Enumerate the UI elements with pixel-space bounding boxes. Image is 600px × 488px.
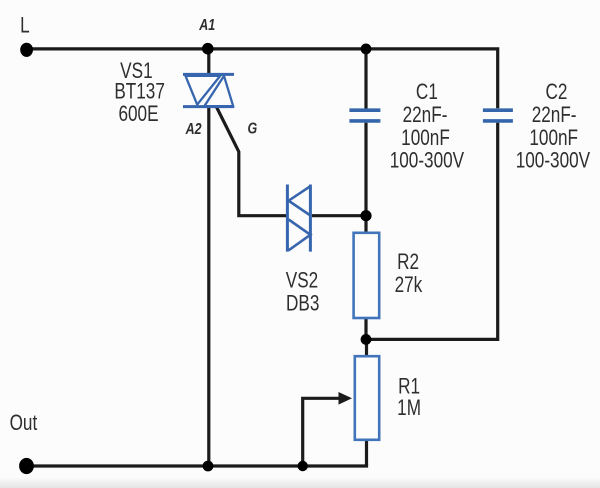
svg-text:100nF: 100nF [529,126,578,151]
wire R2 top lead [364,216,367,234]
terminal Out [19,458,34,474]
wire bottom rail Out to R1 [26,464,368,467]
node A1 junction [202,43,214,55]
wire R2 bottom lead [364,317,367,339]
svg-text:27k: 27k [395,273,423,298]
wire gate from triac to diac [217,107,287,216]
wire R1 top lead [365,339,368,357]
svg-text:L: L [20,14,30,39]
wire diac to node [312,214,366,217]
svg-text:100-300V: 100-300V [390,148,465,173]
capacitor C1 [349,110,380,121]
bottom edge shading [0,477,600,488]
wire A2 vertical upper [207,49,210,76]
svg-text:600E: 600E [118,102,158,127]
terminal L [20,43,33,57]
triac VS1 [183,74,234,106]
svg-text:A1: A1 [198,17,215,35]
node gate-C1-R2 junction [360,210,371,221]
svg-text:Out: Out [10,411,38,436]
wire C1 top lead [364,49,367,109]
svg-text:DB3: DB3 [286,291,319,316]
node A2 bottom junction [203,461,214,472]
svg-text:A2: A2 [185,121,202,139]
svg-text:C1: C1 [416,80,438,105]
wire top rail L to C2 drop [26,49,498,108]
svg-text:100nF: 100nF [401,126,450,151]
wire wiper [303,398,340,466]
svg-text:BT137: BT137 [114,80,165,105]
wire R1 bottom lead [365,439,368,466]
wire C1 bottom lead [364,123,367,216]
resistor R2 [354,233,380,318]
svg-text:22nF-: 22nF- [532,103,577,128]
node R2 bottom junction [361,334,372,345]
diac VS2 [287,185,310,252]
svg-text:C2: C2 [546,80,568,105]
svg-text:100-300V: 100-300V [516,148,591,173]
wiper arrowhead [339,392,353,405]
svg-text:VS2: VS2 [286,269,318,294]
svg-text:R2: R2 [397,250,419,275]
svg-text:22nF-: 22nF- [403,103,448,128]
wire R2 node to C2 bottom lead [366,123,498,340]
svg-text:G: G [248,120,258,138]
potentiometer R1 body [355,356,379,440]
wire A2 vertical lower [207,105,210,466]
node C1 top junction [361,44,372,55]
node wiper bottom junction [298,461,308,471]
svg-text:1M: 1M [397,396,421,421]
capacitor C2 [483,110,513,121]
